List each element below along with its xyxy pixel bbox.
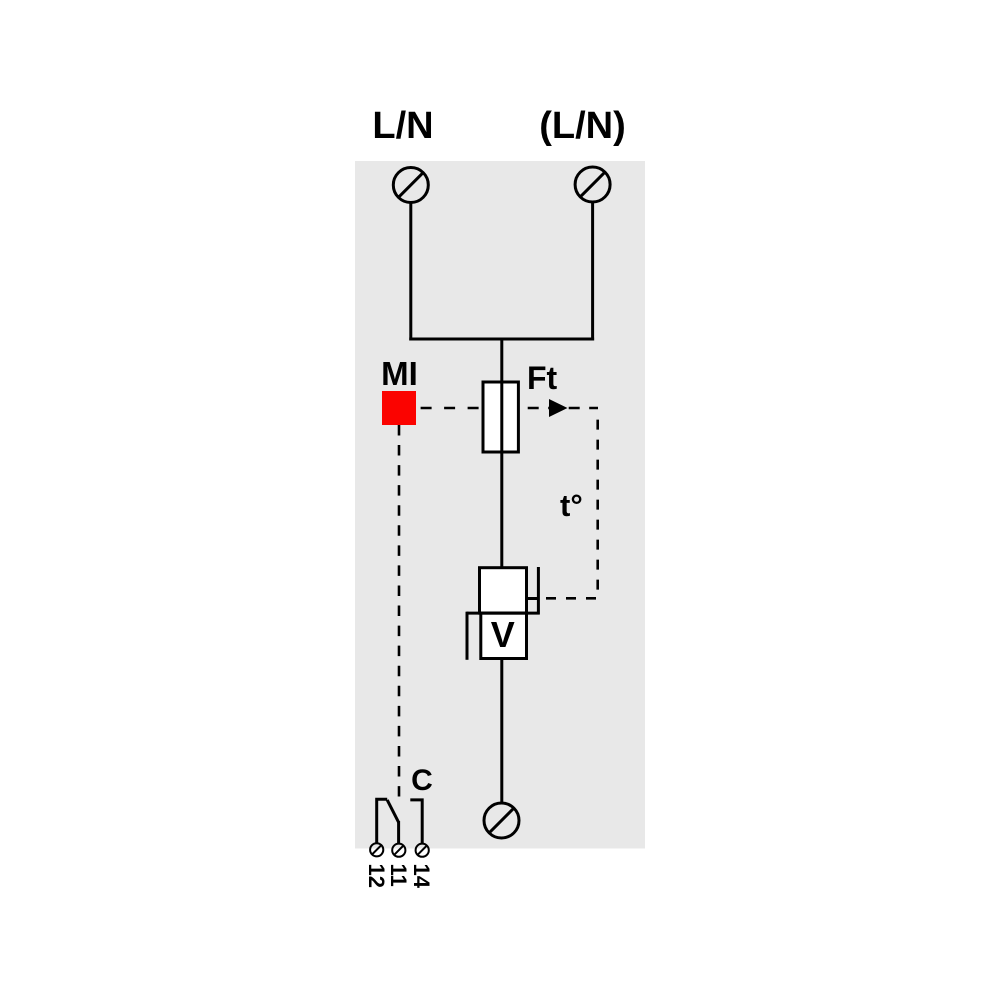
wire from terminal (L/N) down <box>591 202 594 341</box>
terminal screw 14 <box>416 844 429 857</box>
thermal disconnect switch box U <box>480 568 527 613</box>
bus wire joining both terminals <box>409 338 594 341</box>
svg-text:Ft: Ft <box>527 360 558 396</box>
svg-text:MI: MI <box>381 355 418 392</box>
dashed link MI to remote contact <box>398 425 401 797</box>
terminal L/N <box>393 168 428 203</box>
switch contact line through varistor assembly <box>467 612 540 615</box>
svg-text:t°: t° <box>560 488 583 523</box>
right bracket of switch <box>537 567 540 615</box>
remote contact moving arm <box>387 800 398 822</box>
remote contact terminal 12 lead <box>377 799 388 843</box>
arrow head <box>549 399 568 417</box>
wire from bus to fuse Ft <box>500 339 503 382</box>
wire through fuse <box>500 382 503 452</box>
terminal (L/N) <box>575 167 610 202</box>
svg-text:V: V <box>491 614 515 655</box>
svg-text:11: 11 <box>386 864 411 887</box>
remote contact terminal 11 lead <box>397 821 400 844</box>
wire from terminal L/N down <box>409 203 412 341</box>
dashed vertical of t-loop <box>596 420 599 590</box>
terminal screw 11 <box>392 844 405 857</box>
bottom ground terminal <box>484 803 519 838</box>
svg-text:L/N: L/N <box>372 105 433 147</box>
device body outline <box>355 161 645 849</box>
thermal disconnector fuse Ft <box>483 382 518 452</box>
monitoring indicator MI (red square) <box>382 391 416 425</box>
svg-text:12: 12 <box>364 864 389 888</box>
wire fuse to varistor assembly <box>500 452 503 568</box>
remote contact terminal 14 lead <box>410 800 422 844</box>
dashed link fuse to t-loop with arrow <box>518 407 598 410</box>
varistor box V <box>481 613 527 658</box>
wire varistor to bottom terminal <box>500 659 503 804</box>
dashed link MI to fuse <box>421 407 483 410</box>
svg-text:(L/N): (L/N) <box>539 105 626 147</box>
svg-text:14: 14 <box>409 864 434 889</box>
svg-text:C: C <box>411 764 433 797</box>
left bracket of switch <box>466 612 469 660</box>
dashed horizontal of t-loop to varistor switch <box>538 597 598 600</box>
terminal screw 12 <box>370 843 383 856</box>
tick from varistor box to right bracket <box>527 597 539 600</box>
